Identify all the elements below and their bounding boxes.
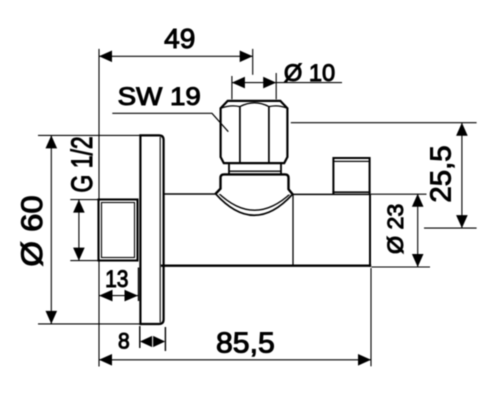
svg-text:SW 19: SW 19 <box>118 83 201 111</box>
dimension Ø 23 <box>371 194 430 267</box>
svg-text:13: 13 <box>105 266 128 293</box>
wall flange (rosette, side view) <box>140 135 163 324</box>
label SW 19 with leader <box>112 83 228 132</box>
dimension 8 <box>118 326 165 354</box>
bonnet saddle curves <box>216 192 293 215</box>
svg-text:Ø 60: Ø 60 <box>16 195 49 266</box>
svg-text:Ø 10: Ø 10 <box>284 60 335 87</box>
dimension G 1/2 <box>66 136 99 260</box>
valve body <box>161 194 371 267</box>
svg-text:8: 8 <box>118 329 130 354</box>
svg-text:G 1/2: G 1/2 <box>66 136 99 192</box>
dimension 85,5 <box>99 268 371 366</box>
dimension 49 <box>99 23 253 367</box>
upper outlet stub <box>332 158 370 194</box>
dimension Ø 10 <box>232 60 342 99</box>
dimension 13 <box>99 266 139 302</box>
bonnet cap <box>215 174 293 194</box>
gland ring under nut <box>229 163 281 174</box>
svg-text:Ø 23: Ø 23 <box>383 204 408 254</box>
compression nut SW 19 <box>221 101 288 163</box>
dimension 25,5 <box>291 123 477 228</box>
svg-text:25,5: 25,5 <box>426 145 458 202</box>
dimension Ø 60 <box>16 135 139 324</box>
svg-text:85,5: 85,5 <box>216 328 275 360</box>
G 1/2 threaded tail <box>99 200 138 261</box>
svg-text:49: 49 <box>164 23 195 54</box>
